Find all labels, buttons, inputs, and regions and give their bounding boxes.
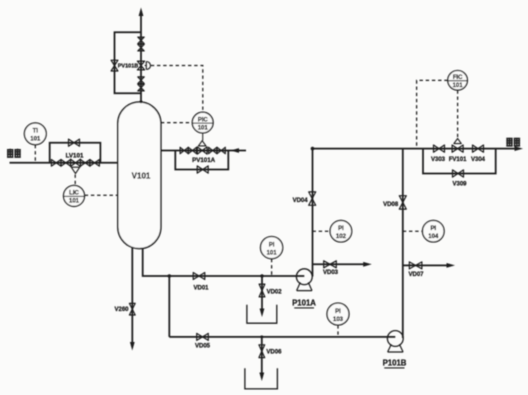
svg-text:FIC: FIC [453,75,463,81]
node feed label 原料 [7,149,21,158]
valve VD02 [259,284,265,297]
valve V260 [129,303,135,315]
valve VD05 [197,333,209,340]
wire feed line [10,162,118,164]
pump P101A [296,269,312,291]
wire bottom outlet to P101A suction [143,248,305,276]
label PV101A [192,157,216,164]
wire P101B discharge riser [402,149,404,338]
svg-text:103: 103 [333,317,344,323]
label V309 [452,181,467,187]
valve VD06 [259,345,265,358]
svg-text:V303: V303 [431,157,446,163]
valve PV101A bypass gate [197,166,208,173]
valve feed block 2 [61,160,71,167]
vessel drain tank 1 [247,305,277,324]
label VD07 [408,272,424,278]
wire PV101B bypass loop [115,32,142,93]
valve LV101 control [71,159,81,174]
instrument PI102 [330,220,352,242]
wire PI103 signal [337,325,339,336]
valve VD04 [309,192,316,205]
svg-text:102: 102 [336,234,347,240]
valve vent block 3 [138,77,144,84]
svg-text:101: 101 [69,199,80,205]
node junction dot header [311,147,315,151]
wire vessel to PIC101 signal [161,122,192,124]
svg-text:FV101: FV101 [449,157,467,163]
instrument PI104 [423,220,445,242]
label VD04 [293,198,309,204]
valve PV101B control [137,61,150,70]
valve V303 [434,145,445,152]
svg-text:VD03: VD03 [323,270,339,276]
wire PV101A line [161,150,246,152]
label VD02 [267,289,283,295]
wire FV101 bypass loop [423,149,496,174]
wire discharge header [313,148,519,150]
node outlet label 出料 [506,138,520,147]
svg-text:VD06: VD06 [266,349,282,355]
valve PV101A control [197,133,207,154]
svg-text:PIC: PIC [198,117,209,123]
svg-text:VD02: VD02 [267,289,283,295]
label V260 [114,307,129,313]
wire junction drop [168,276,170,337]
valve LV101 bypass gate [69,139,80,146]
instrument PI103 [327,303,349,325]
svg-text:PI: PI [335,309,341,315]
wire VD07 branch [403,264,451,266]
svg-text:PV101A: PV101A [192,157,216,164]
svg-text:VD05: VD05 [195,344,211,350]
valve vent block 2 [138,44,144,51]
valve PV101B bypass gate [111,60,118,71]
svg-text:V309: V309 [452,181,467,187]
label V303 [431,157,446,163]
label VD05 [195,344,211,350]
wire VD06 arrow [259,373,264,382]
wire VD03 arrow [363,262,372,267]
svg-text:PI: PI [430,226,436,232]
valve VD08 [399,196,406,209]
svg-text:101: 101 [30,137,41,143]
label V304 [471,157,486,163]
wire PV101B to PIC101 signal [151,66,203,112]
valve V309 [453,170,464,177]
wire lower suction line to P101B [169,336,395,338]
instrument TI101 [24,123,46,145]
valve PV101A block 4 [217,147,225,153]
node junction dot VD06 [260,335,263,338]
wire VD06 drop [261,337,263,377]
svg-text:VD04: VD04 [293,198,309,204]
label VD01 [193,285,209,291]
svg-text:101: 101 [198,125,209,131]
svg-text:PI: PI [338,226,344,232]
svg-text:V304: V304 [471,157,486,163]
valve feed block 1 [51,160,61,167]
wire FIC101 to FV101 signal [457,90,459,138]
wire TI101 signal [34,145,36,163]
instrument PIC101 [192,112,213,133]
valve feed block 3 [80,160,90,167]
wire vent arrow [139,8,144,17]
label VD03 [323,270,339,276]
valve FV101 control [452,139,463,153]
wire vent line [140,14,142,102]
svg-text:LIC: LIC [69,191,79,197]
svg-text:104: 104 [428,234,439,240]
wire PI101 signal [271,259,273,276]
valve VD03 [324,261,337,268]
wire VD02 arrow [260,309,265,318]
valve PV101A block 1 [180,147,188,153]
wire LV101 to LIC101 signal [74,175,76,186]
instrument FIC101 [448,71,468,91]
svg-text:PV101B: PV101B [118,64,139,70]
svg-text:V101: V101 [132,171,151,180]
wire drain arrow [130,342,135,351]
wire PI104 signal [403,230,423,232]
label FV101 [449,157,467,163]
wire drain line V260 [131,247,133,346]
label P101A [292,299,316,308]
svg-text:PI: PI [269,242,275,248]
wire VD07 arrow [447,263,456,268]
wire FIC101 to header signal [417,80,448,148]
instrument PI101 [261,237,283,259]
wire outlet arrow [515,146,524,151]
label PV101B [118,64,139,70]
vessel drain tank 2 [245,368,278,389]
wire P101A discharge riser [312,149,314,277]
valve VD01 [193,273,205,280]
svg-text:101: 101 [453,83,464,89]
valve PV101A block 2 [188,147,196,153]
wire VD03 branch [313,263,368,265]
pump P101B [387,331,403,352]
valve PV101A block 3 [209,147,217,153]
svg-text:TI: TI [33,129,39,135]
label P101B [383,359,407,368]
wire PI102 signal [313,230,330,232]
node vent nozzle dot [140,100,143,103]
svg-text:VD01: VD01 [193,285,209,291]
wire PV101A inlet arrow [231,148,240,153]
instrument LIC101 [64,185,85,206]
valve V304 [473,145,484,152]
valve vent block 4 [138,84,144,91]
valve feed block 4 [90,160,100,167]
label LV101 [66,153,84,160]
wire VD02 drop [261,276,263,313]
svg-text:P101A: P101A [292,299,316,308]
vessel V101 [118,102,161,249]
svg-text:VD07: VD07 [408,272,424,278]
valve vent block 1 [138,37,144,44]
svg-text:V260: V260 [114,307,129,313]
node junction dot VD02 [260,274,263,277]
svg-text:VD08: VD08 [383,202,399,208]
svg-text:LV101: LV101 [66,153,84,160]
svg-text:101: 101 [267,250,278,256]
wire LIC101 to vessel signal [85,194,118,196]
svg-text:P101B: P101B [383,359,407,368]
valve VD07 [409,262,422,269]
wire PV101A bypass loop [175,151,228,170]
label VD08 [383,202,399,208]
node junction dot suction [168,274,171,277]
wire LV101 bypass loop [50,143,101,163]
label VD06 [266,349,282,355]
